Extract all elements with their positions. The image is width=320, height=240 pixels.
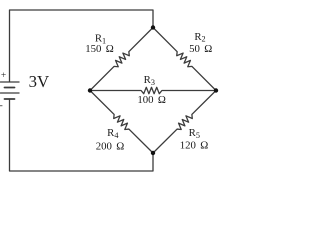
battery B1 plates (1, 81, 20, 83)
wire battery + to top node (10, 10, 154, 82)
node left (88, 88, 92, 92)
svg-text:+: + (1, 71, 6, 81)
node bottom (151, 151, 155, 155)
svg-text:-: - (0, 101, 3, 111)
node top (151, 25, 155, 29)
wire battery - to bottom node (10, 99, 154, 171)
resistor R4 (90, 91, 153, 154)
node right (214, 88, 218, 92)
svg-text:150 Ω: 150 Ω (85, 43, 114, 55)
svg-text:120 Ω: 120 Ω (180, 140, 209, 152)
resistor R5 (153, 91, 216, 154)
svg-text:50 Ω: 50 Ω (189, 43, 212, 55)
resistor R2 (153, 28, 216, 91)
svg-text:3V: 3V (29, 72, 50, 91)
svg-text:200 Ω: 200 Ω (96, 140, 125, 152)
resistor R3 (90, 87, 216, 93)
resistor R1 (90, 28, 153, 91)
svg-text:100 Ω: 100 Ω (137, 94, 166, 106)
